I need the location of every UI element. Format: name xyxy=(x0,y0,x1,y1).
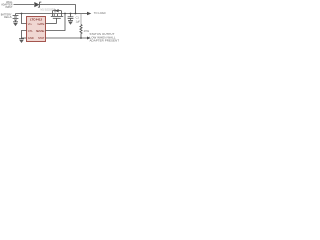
ground (chip) xyxy=(19,39,24,43)
svg-text:LTC4412: LTC4412 xyxy=(30,17,43,21)
resistor R1 470k xyxy=(80,25,82,39)
wire: diode to corner and down to load rail xyxy=(40,5,76,14)
svg-text:GATE: GATE xyxy=(37,22,44,26)
status output label xyxy=(90,32,120,43)
node: top wire joins rail xyxy=(75,13,77,15)
ground (C1) xyxy=(68,20,73,24)
svg-text:CTL: CTL xyxy=(28,29,33,33)
svg-text:SENSE: SENSE xyxy=(36,29,45,33)
wire: wall adapter to diode xyxy=(14,4,35,6)
arrow to load xyxy=(87,12,91,16)
node SENSE tap xyxy=(64,13,66,15)
svg-text:INPUT: INPUT xyxy=(5,6,13,9)
wire: SENSE pin up to rail xyxy=(46,14,66,31)
node C1 tap xyxy=(70,13,72,15)
wall adapter input label xyxy=(1,1,13,9)
svg-text:TO LOAD: TO LOAD xyxy=(94,11,106,15)
wire: CTL pin to ground xyxy=(22,31,27,39)
battery label xyxy=(1,13,12,18)
IC U1 LTC4412 xyxy=(27,17,46,42)
capacitor C1 xyxy=(68,14,74,21)
C1 value label xyxy=(76,17,81,24)
load rail xyxy=(16,13,88,15)
battery B1 xyxy=(13,14,19,22)
svg-text:C1: C1 xyxy=(76,17,80,20)
wire: STAT pin to status output xyxy=(46,37,88,39)
wire: rail to VIN pin xyxy=(22,14,27,24)
resistor R1 lead from rail xyxy=(80,14,82,25)
ground (battery) xyxy=(13,22,18,26)
node VIN tap xyxy=(21,13,23,15)
wire: GND pin to ground xyxy=(22,37,27,39)
arrow status output xyxy=(87,37,91,40)
svg-text:GND: GND xyxy=(28,36,34,40)
wire: GATE pin to M1 gate xyxy=(46,23,57,25)
svg-text:M1 Si2333DS: M1 Si2333DS xyxy=(41,8,56,11)
svg-text:ADAPTER PRESENT: ADAPTER PRESENT xyxy=(90,39,120,43)
node R1 joins STAT xyxy=(80,37,82,39)
svg-text:1µF: 1µF xyxy=(76,20,81,23)
svg-text:CELLS: CELLS xyxy=(4,16,12,19)
diode D1 (Schottky) xyxy=(34,2,41,8)
svg-text:STAT: STAT xyxy=(38,36,45,40)
transistor M1 (P-MOSFET with body diode) xyxy=(51,9,63,24)
